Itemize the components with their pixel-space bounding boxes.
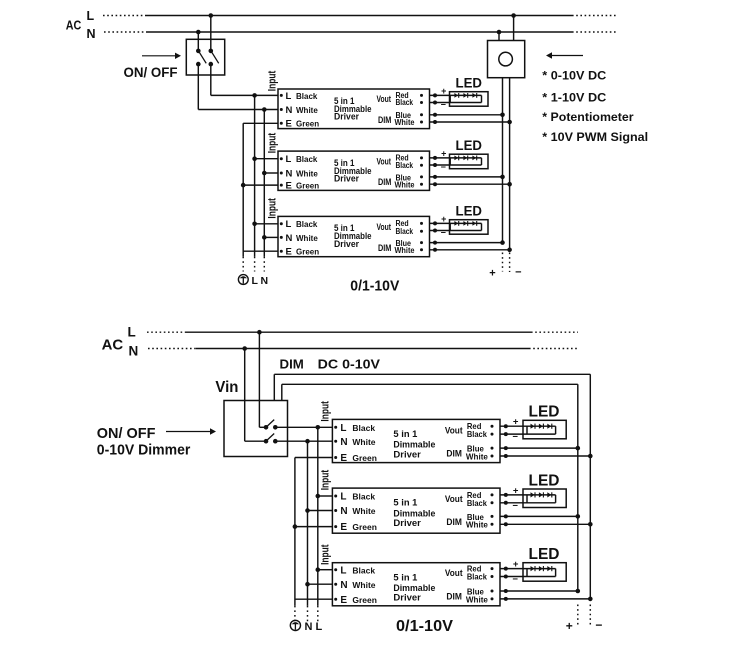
top diagram: AC source labels — [66, 9, 96, 41]
svg-text:Green: Green — [296, 120, 319, 129]
driver U2 5-in-1 dimmable driver box — [278, 151, 430, 190]
wire E (earth) bus (top) — [242, 123, 244, 271]
node L bus to U2 — [252, 156, 257, 161]
node L line to dimmer — [511, 13, 516, 18]
LED4 outer housing — [523, 420, 566, 439]
node blue bus U6 — [576, 589, 581, 594]
svg-text:LED: LED — [529, 404, 560, 421]
svg-text:DIM: DIM — [378, 243, 391, 253]
wire N bus branch to U3 — [264, 236, 278, 238]
svg-text:White: White — [296, 169, 318, 178]
svg-text:Green: Green — [352, 453, 377, 463]
wire E bus branch to U5 — [295, 526, 333, 528]
wire DIM white line from dimmer — [274, 374, 590, 599]
wire U6 DIM white to bus — [500, 597, 590, 601]
ON/OFF arrow (top) — [142, 55, 177, 57]
ON/OFF 0-10V Dimmer label — [97, 425, 191, 459]
LED1 strip loop — [450, 95, 481, 102]
svg-text:LED: LED — [529, 546, 560, 563]
svg-text:L: L — [340, 492, 346, 503]
svg-text:Input: Input — [266, 198, 278, 219]
U6 output pins Vout DIM — [445, 564, 494, 605]
svg-text:−: − — [595, 618, 602, 632]
svg-text:Input: Input — [320, 470, 332, 491]
svg-text:DIM: DIM — [280, 357, 304, 372]
U1 output pins Vout DIM — [377, 91, 424, 127]
U6 input pins L N E — [334, 565, 377, 606]
U6 name label 5 in 1 Dimmable Driver — [393, 572, 435, 603]
wire blue bus dotted tail + — [502, 253, 504, 272]
svg-text:Vout: Vout — [445, 426, 463, 437]
node L line to dimmer SW2 — [257, 330, 262, 335]
svg-text:N: N — [261, 275, 269, 287]
svg-text:L: L — [286, 91, 292, 102]
svg-text:N: N — [286, 105, 293, 116]
node N bus tap — [262, 107, 267, 112]
svg-text:White: White — [296, 234, 318, 243]
wire E (earth) bus (bottom) — [294, 458, 296, 622]
wire SW2 pole B output to driver U4 pin N — [275, 440, 332, 442]
wire N bus (bottom) — [307, 441, 309, 621]
U4 input pins L N E — [334, 423, 377, 464]
wire SW2 pole A output to driver U4 pin L — [275, 426, 332, 428]
wire L drop to dimmer SW2 — [258, 332, 260, 427]
svg-text:−: − — [441, 162, 446, 172]
svg-text:* 1-10V DC: * 1-10V DC — [542, 91, 606, 105]
svg-text:E: E — [286, 119, 292, 130]
U5 output pins Vout DIM — [445, 490, 494, 530]
svg-text:* Potentiometer: * Potentiometer — [542, 110, 634, 124]
wire L into SW2 pole A — [259, 426, 266, 428]
driver U4 5-in-1 dimmable driver box — [332, 419, 500, 462]
node white bus U3 — [507, 248, 512, 253]
wire N bus (top) — [263, 110, 265, 272]
svg-text:−: − — [512, 500, 518, 511]
SW1 pole A contacts and blade — [196, 49, 206, 67]
svg-text:DIM: DIM — [446, 449, 462, 460]
svg-text:LED: LED — [456, 76, 483, 91]
svg-text:DIM: DIM — [378, 177, 391, 187]
svg-text:E: E — [340, 522, 347, 533]
node N bus to U5 — [305, 508, 310, 513]
svg-text:* 0-10V DC: * 0-10V DC — [542, 68, 606, 82]
svg-text:DIM: DIM — [446, 517, 462, 528]
node E bus to U2 — [241, 183, 246, 188]
LED3 diodes D1 D2 D3 — [454, 221, 476, 226]
driver U3 5-in-1 dimmable driver box — [278, 216, 430, 256]
wire AC line N (bottom) — [148, 348, 578, 350]
LED6 strip loop — [527, 569, 556, 577]
wire U3 DIM white to bus — [430, 248, 510, 252]
svg-text:Vin: Vin — [215, 379, 238, 396]
svg-text:ON/ OFF: ON/ OFF — [124, 64, 178, 80]
wire white bus dotted tail - — [509, 253, 511, 273]
svg-text:N: N — [340, 437, 347, 448]
svg-text:N: N — [286, 233, 293, 244]
svg-text:L: L — [286, 154, 292, 165]
U5 input pins L N E — [334, 492, 377, 534]
LED2 strip loop — [450, 158, 481, 165]
svg-text:Vout: Vout — [377, 94, 392, 104]
svg-text:Vout: Vout — [377, 222, 392, 232]
node white bus U6 — [588, 597, 593, 602]
wire U5 DIM blue to bus — [500, 514, 578, 518]
dimmer arrow (bottom) — [166, 431, 212, 433]
svg-text:+: + — [513, 559, 519, 570]
wire AC line L (top) — [103, 15, 617, 17]
wire U2 DIM white to bus — [430, 182, 510, 186]
node blue bus U4 — [576, 446, 581, 451]
svg-text:L: L — [316, 621, 323, 633]
svg-text:White: White — [466, 520, 488, 530]
ground labels N L (bottom) — [305, 621, 323, 633]
svg-text:E: E — [340, 595, 347, 606]
wire AC line L (bottom) — [147, 331, 578, 333]
LED2 cathode wire - — [430, 162, 482, 172]
LED6 cathode wire - — [500, 574, 556, 585]
svg-text:Driver: Driver — [393, 518, 421, 529]
LED6 outer housing — [523, 563, 566, 582]
svg-text:N: N — [340, 506, 347, 517]
wire white bus dotted tail - (bottom) — [589, 605, 591, 625]
svg-text:ON/ OFF: ON/ OFF — [97, 425, 156, 442]
U1 input pins L N E — [280, 91, 319, 130]
wire N bus branch to U5 — [308, 510, 333, 512]
wire L drop to dimmer RV1 — [513, 16, 515, 41]
svg-text:Black: Black — [296, 92, 318, 101]
svg-text:Vout: Vout — [445, 494, 463, 505]
wire U5 DIM white to bus — [500, 522, 590, 526]
svg-text:Green: Green — [352, 595, 377, 605]
DIM DC 0-10V label — [280, 357, 381, 372]
U2 name label 5 in 1 Dimmable Driver — [334, 158, 372, 184]
svg-text:White: White — [395, 246, 415, 255]
svg-text:L: L — [340, 565, 346, 576]
svg-text:+: + — [489, 268, 495, 280]
svg-text:N: N — [286, 168, 293, 179]
svg-text:Green: Green — [352, 522, 377, 532]
wire U3 DIM blue to bus — [430, 241, 503, 245]
svg-text:Black: Black — [352, 423, 375, 433]
wire L bus (bottom) — [317, 427, 319, 621]
svg-text:AC: AC — [66, 17, 82, 32]
wire E bus branch to U6 — [295, 598, 333, 600]
node N line to dimmer SW2 — [242, 346, 247, 351]
U2 output pins Vout DIM — [377, 154, 424, 190]
node white bus U1 — [507, 120, 512, 125]
svg-text:Black: Black — [467, 572, 487, 582]
wire DIM blue line from dimmer — [282, 384, 578, 591]
wire E bus branch to U4 — [295, 457, 333, 459]
svg-text:Driver: Driver — [334, 174, 360, 184]
LED4 anode wire + — [500, 417, 556, 429]
node blue bus U2 — [500, 175, 505, 180]
node N bus to U2 — [262, 171, 267, 176]
svg-text:L: L — [87, 9, 95, 23]
LED3 strip loop — [450, 223, 481, 230]
svg-text:LED: LED — [529, 472, 560, 489]
wire L bus branch to U2 — [255, 158, 278, 160]
svg-text:LED: LED — [456, 138, 483, 153]
LED6 anode wire + — [500, 559, 556, 571]
wire U1 DIM white to bus — [430, 120, 510, 124]
svg-text:+: + — [566, 619, 573, 633]
svg-text:5 in 1: 5 in 1 — [393, 429, 418, 440]
svg-text:Driver: Driver — [334, 111, 360, 121]
svg-text:Input: Input — [266, 133, 278, 154]
driver U6 5-in-1 dimmable driver box — [332, 563, 500, 606]
svg-text:N: N — [305, 621, 313, 633]
bottom diagram: AC source labels — [102, 325, 139, 359]
svg-text:E: E — [286, 247, 292, 258]
node N line to dimmer — [497, 30, 502, 35]
svg-text:+: + — [441, 214, 446, 224]
node blue bus U5 — [576, 514, 581, 519]
wire AC line N (top) — [104, 31, 617, 33]
LED1 anode wire + — [430, 86, 482, 97]
node white bus U4 — [588, 454, 593, 459]
LED5 anode wire + — [500, 485, 556, 497]
LED3 outer housing — [450, 220, 489, 235]
svg-text:Black: Black — [352, 565, 375, 575]
wire U4 DIM white to bus — [500, 454, 590, 458]
svg-text:Driver: Driver — [393, 449, 421, 460]
SW1 pole B contacts and blade — [209, 49, 219, 67]
node E bus to U5 — [293, 524, 298, 529]
LED2 diodes D1 D2 D3 — [454, 156, 476, 161]
svg-text:5 in 1: 5 in 1 — [393, 498, 418, 509]
ground labels L N (top) — [252, 275, 269, 287]
node L bus to U5 — [316, 494, 321, 499]
wire L bus branch to U5 — [318, 495, 333, 497]
driver U5 5-in-1 dimmable driver box — [332, 488, 500, 533]
svg-text:Green: Green — [296, 182, 319, 191]
wire blue bus dotted tail + (bottom) — [577, 605, 579, 625]
node L bus to U6 — [316, 567, 321, 572]
svg-text:White: White — [352, 437, 375, 447]
wire N bus branch to U2 — [264, 172, 278, 174]
LED2 anode wire + — [430, 149, 482, 160]
svg-text:DIM: DIM — [378, 115, 391, 125]
svg-text:L: L — [128, 325, 136, 340]
svg-text:−: − — [512, 574, 518, 585]
node N bus to U3 — [262, 235, 267, 240]
svg-text:White: White — [352, 580, 375, 590]
svg-text:N: N — [87, 27, 96, 41]
LED6 diodes D1 D2 D3 — [531, 566, 552, 571]
svg-text:E: E — [286, 181, 292, 192]
wire E bus branch to U1 — [243, 122, 278, 124]
svg-text:Driver: Driver — [334, 239, 360, 249]
U2 input pins L N E — [280, 154, 319, 191]
node N bus tap (bottom) — [305, 439, 310, 444]
node white bus U2 — [507, 182, 512, 187]
wire E bus branch to U2 — [243, 184, 278, 186]
svg-text:White: White — [395, 118, 415, 127]
svg-text:Input: Input — [266, 70, 278, 91]
polarity labels + - (top) — [489, 267, 521, 280]
wire L bus (top) — [254, 95, 256, 271]
svg-text:DIM: DIM — [446, 592, 462, 603]
LED5 cathode wire - — [500, 500, 556, 511]
LED4 cathode wire - — [500, 432, 556, 443]
svg-text:Vout: Vout — [445, 568, 463, 579]
svg-text:Black: Black — [467, 498, 487, 508]
svg-text:Black: Black — [396, 161, 414, 170]
svg-text:White: White — [395, 180, 415, 189]
wire E bus branch to U3 — [243, 250, 278, 252]
polarity labels + - (bottom) — [566, 618, 603, 633]
switch SW1 box — [186, 39, 224, 75]
svg-text:DC 0-10V: DC 0-10V — [318, 357, 381, 372]
svg-text:Input: Input — [320, 544, 332, 565]
svg-text:Input: Input — [320, 401, 332, 422]
svg-text:* 10V PWM Signal: * 10V PWM Signal — [542, 130, 648, 144]
svg-text:White: White — [466, 451, 488, 461]
svg-text:N: N — [340, 580, 347, 591]
svg-text:Green: Green — [296, 248, 319, 257]
U3 output pins Vout DIM — [377, 219, 424, 255]
svg-text:0/1-10V: 0/1-10V — [350, 278, 399, 295]
svg-text:Black: Black — [467, 429, 487, 439]
svg-text:LED: LED — [456, 204, 483, 219]
wire N drop to switch SW1 — [197, 32, 199, 51]
svg-text:E: E — [340, 453, 347, 464]
wire L bus branch to U3 — [255, 223, 278, 225]
wire U6 DIM blue to bus — [500, 589, 578, 593]
U4 output pins Vout DIM — [445, 421, 494, 461]
wire DIM white bus (top) — [509, 78, 511, 250]
dimmer input arrow — [550, 55, 583, 57]
node blue bus U1 — [500, 113, 505, 118]
svg-text:Driver: Driver — [393, 593, 421, 604]
svg-text:Black: Black — [396, 227, 414, 236]
wire U4 DIM blue to bus — [500, 446, 578, 450]
U4 name label 5 in 1 Dimmable Driver — [393, 429, 435, 460]
wire N bus branch to U6 — [308, 583, 333, 585]
svg-text:L: L — [340, 423, 346, 434]
svg-text:Vout: Vout — [377, 157, 392, 167]
svg-text:White: White — [296, 106, 318, 115]
SW2 pole B contacts and blade — [264, 434, 278, 444]
node L bus tap — [252, 93, 257, 98]
LED5 outer housing — [523, 489, 566, 508]
LED5 strip loop — [527, 495, 556, 503]
dimmer type list — [542, 68, 648, 144]
node blue bus U3 — [500, 240, 505, 245]
svg-text:Black: Black — [396, 98, 414, 107]
ground symbol (bottom) — [290, 620, 300, 630]
dimmer RV1 knob — [499, 52, 513, 66]
wire L drop to switch SW1 — [210, 16, 212, 51]
svg-text:5 in 1: 5 in 1 — [393, 572, 418, 583]
LED3 anode wire + — [430, 214, 482, 225]
ground symbol (top) — [238, 275, 248, 285]
dimmer RV1 box — [488, 41, 525, 78]
node L-line to switch junction — [209, 13, 214, 18]
wire L bus branch to U6 — [318, 569, 333, 571]
svg-text:AC: AC — [102, 337, 124, 354]
node N-line to switch junction — [196, 30, 201, 35]
U3 input pins L N E — [280, 219, 319, 257]
U5 name label 5 in 1 Dimmable Driver — [393, 498, 435, 529]
wire SW1 pole A output to driver U1 pin N — [198, 64, 278, 109]
svg-text:+: + — [441, 149, 446, 159]
svg-text:L: L — [286, 219, 292, 230]
driver U1 5-in-1 dimmable driver box — [278, 89, 430, 129]
svg-text:White: White — [352, 506, 375, 516]
wire U1 DIM blue to bus — [430, 113, 503, 117]
wire SW1 pole B output to driver U1 pin L — [211, 64, 278, 95]
LED5 diodes D1 D2 D3 — [531, 492, 552, 497]
wire DIM blue bus (top) — [502, 78, 504, 243]
U3 name label 5 in 1 Dimmable Driver — [334, 223, 372, 249]
LED1 outer housing — [450, 92, 489, 107]
LED2 outer housing — [450, 154, 489, 169]
LED1 cathode wire - — [430, 100, 482, 110]
svg-text:−: − — [441, 228, 446, 238]
svg-text:Black: Black — [296, 155, 318, 164]
svg-text:0/1-10V: 0/1-10V — [396, 618, 453, 635]
node L bus tap (bottom) — [316, 425, 321, 430]
LED3 cathode wire - — [430, 228, 482, 238]
svg-text:L: L — [252, 275, 259, 287]
wire U2 DIM blue to bus — [430, 175, 503, 179]
SW2 pole A contacts and blade — [264, 420, 278, 430]
svg-text:Black: Black — [352, 492, 375, 502]
svg-text:+: + — [513, 485, 519, 496]
svg-text:N: N — [129, 343, 139, 358]
node white bus U5 — [588, 522, 593, 527]
wire N drop to dimmer RV1 — [498, 32, 500, 41]
svg-text:+: + — [441, 86, 446, 96]
U1 name label 5 in 1 Dimmable Driver — [334, 96, 372, 122]
svg-text:+: + — [513, 417, 519, 428]
wire N drop to dimmer SW2 — [245, 349, 266, 442]
LED1 diodes D1 D2 D3 — [454, 93, 476, 98]
node N bus to U6 — [305, 582, 310, 587]
svg-text:−: − — [515, 267, 521, 279]
LED4 diodes D1 D2 D3 — [531, 424, 552, 429]
svg-text:0-10V Dimmer: 0-10V Dimmer — [97, 442, 191, 459]
LED4 strip loop — [527, 426, 556, 434]
svg-text:Black: Black — [296, 220, 318, 229]
svg-text:−: − — [441, 100, 446, 110]
svg-text:−: − — [512, 432, 518, 443]
svg-text:White: White — [466, 594, 488, 604]
node L bus to U3 — [252, 222, 257, 227]
dimmer SW2 box (ON/OFF 0-10V dimmer) — [224, 401, 288, 457]
